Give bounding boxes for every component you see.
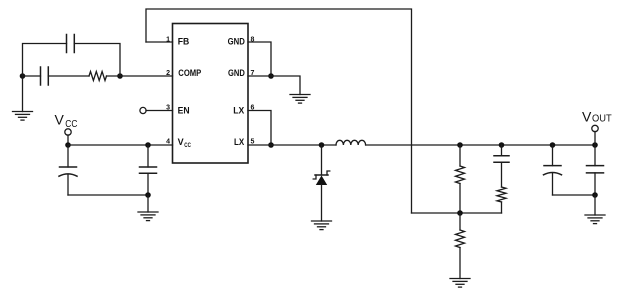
node A comp network left bbox=[20, 73, 26, 79]
svg-text:1: 1 bbox=[166, 37, 170, 44]
wire comp series left bbox=[23, 75, 41, 77]
resistor R1 divider top bbox=[456, 145, 465, 213]
capacitor C4 input ceramic bbox=[140, 145, 157, 195]
wire node B to pin2 COMP bbox=[107, 75, 173, 77]
node input ground junction bbox=[145, 192, 151, 198]
wire VCC rail to pin4 bbox=[68, 144, 173, 146]
svg-text:CC: CC bbox=[65, 119, 77, 130]
node input cap2 junction bbox=[145, 142, 151, 148]
svg-text:5: 5 bbox=[251, 139, 255, 146]
inductor L1 bbox=[336, 140, 366, 145]
node feedback middle bbox=[457, 210, 463, 216]
node VCC rail junction bbox=[65, 142, 71, 148]
ground diode bbox=[312, 221, 332, 230]
svg-text:EN: EN bbox=[178, 106, 190, 116]
wire pin6 LX stub bbox=[248, 111, 271, 146]
ground divider bbox=[450, 279, 470, 288]
svg-text:FB: FB bbox=[178, 37, 190, 47]
ground input caps bbox=[138, 195, 158, 221]
wire comp top branch left riser bbox=[23, 44, 67, 77]
svg-text:7: 7 bbox=[251, 70, 255, 77]
wire pin3 EN stub bbox=[146, 110, 173, 112]
diode D1 schottky bbox=[313, 145, 330, 221]
wire output bottom rail bbox=[553, 194, 596, 196]
svg-text:V: V bbox=[55, 112, 65, 128]
resistor R2 divider bottom bbox=[456, 213, 465, 279]
svg-text:CC: CC bbox=[184, 142, 191, 149]
resistor R3 comp bbox=[89, 72, 107, 81]
svg-text:4: 4 bbox=[166, 139, 170, 146]
node B comp network right bbox=[117, 73, 123, 79]
svg-text:3: 3 bbox=[166, 105, 170, 112]
IC U1 regulator body bbox=[173, 24, 249, 164]
capacitor C7 output ceramic bbox=[587, 145, 604, 195]
svg-text:6: 6 bbox=[251, 105, 255, 112]
capacitor C5 feedforward bbox=[494, 145, 509, 187]
wire pin1 FB stub bbox=[146, 41, 173, 43]
svg-text:2: 2 bbox=[166, 70, 170, 77]
wire pin7 GND bbox=[248, 76, 300, 95]
svg-text:V: V bbox=[582, 109, 592, 125]
svg-text:GND: GND bbox=[228, 37, 246, 47]
node VOUT rail junction bbox=[592, 142, 598, 148]
capacitor C1 comp series bbox=[41, 67, 49, 85]
ground output caps bbox=[585, 195, 605, 224]
capacitor C2 comp top bbox=[67, 35, 75, 53]
resistor R4 feedforward bbox=[497, 187, 506, 213]
node EN terminal bbox=[140, 107, 146, 113]
wire output rail bbox=[366, 144, 595, 146]
capacitor C6 output electrolytic bbox=[544, 145, 562, 195]
wire VCC terminal drop bbox=[67, 135, 69, 145]
wire feedback loop top bbox=[146, 9, 412, 213]
svg-text:COMP: COMP bbox=[178, 68, 201, 78]
wire VOUT terminal drop bbox=[594, 132, 596, 146]
node diode junction bbox=[319, 142, 325, 148]
svg-text:OUT: OUT bbox=[592, 114, 612, 125]
node feedforward junction bbox=[499, 142, 505, 148]
wire comp series middle bbox=[48, 75, 89, 77]
wire pin8 GND stub bbox=[248, 42, 271, 76]
wire comp top branch right riser bbox=[74, 44, 120, 77]
node pin5 junction bbox=[268, 142, 274, 148]
svg-text:LX: LX bbox=[234, 137, 244, 147]
ground IC GND pins bbox=[290, 95, 310, 104]
ground comp network bbox=[13, 76, 33, 120]
svg-text:LX: LX bbox=[233, 106, 244, 116]
node output electrolytic junction bbox=[550, 142, 556, 148]
node output ground junction bbox=[592, 192, 598, 198]
wire input bottom rail bbox=[68, 194, 148, 196]
node pin7 junction bbox=[268, 73, 274, 79]
svg-text:V: V bbox=[178, 137, 184, 147]
node divider top junction bbox=[457, 142, 463, 148]
wire feedback lower horizontal bbox=[412, 212, 502, 214]
node VOUT terminal bbox=[592, 125, 598, 131]
wire pin5 LX rail to inductor bbox=[248, 144, 336, 146]
capacitor C3 input electrolytic bbox=[59, 145, 77, 195]
node VCC terminal bbox=[65, 129, 71, 135]
svg-text:8: 8 bbox=[251, 37, 255, 44]
svg-text:GND: GND bbox=[228, 68, 245, 78]
